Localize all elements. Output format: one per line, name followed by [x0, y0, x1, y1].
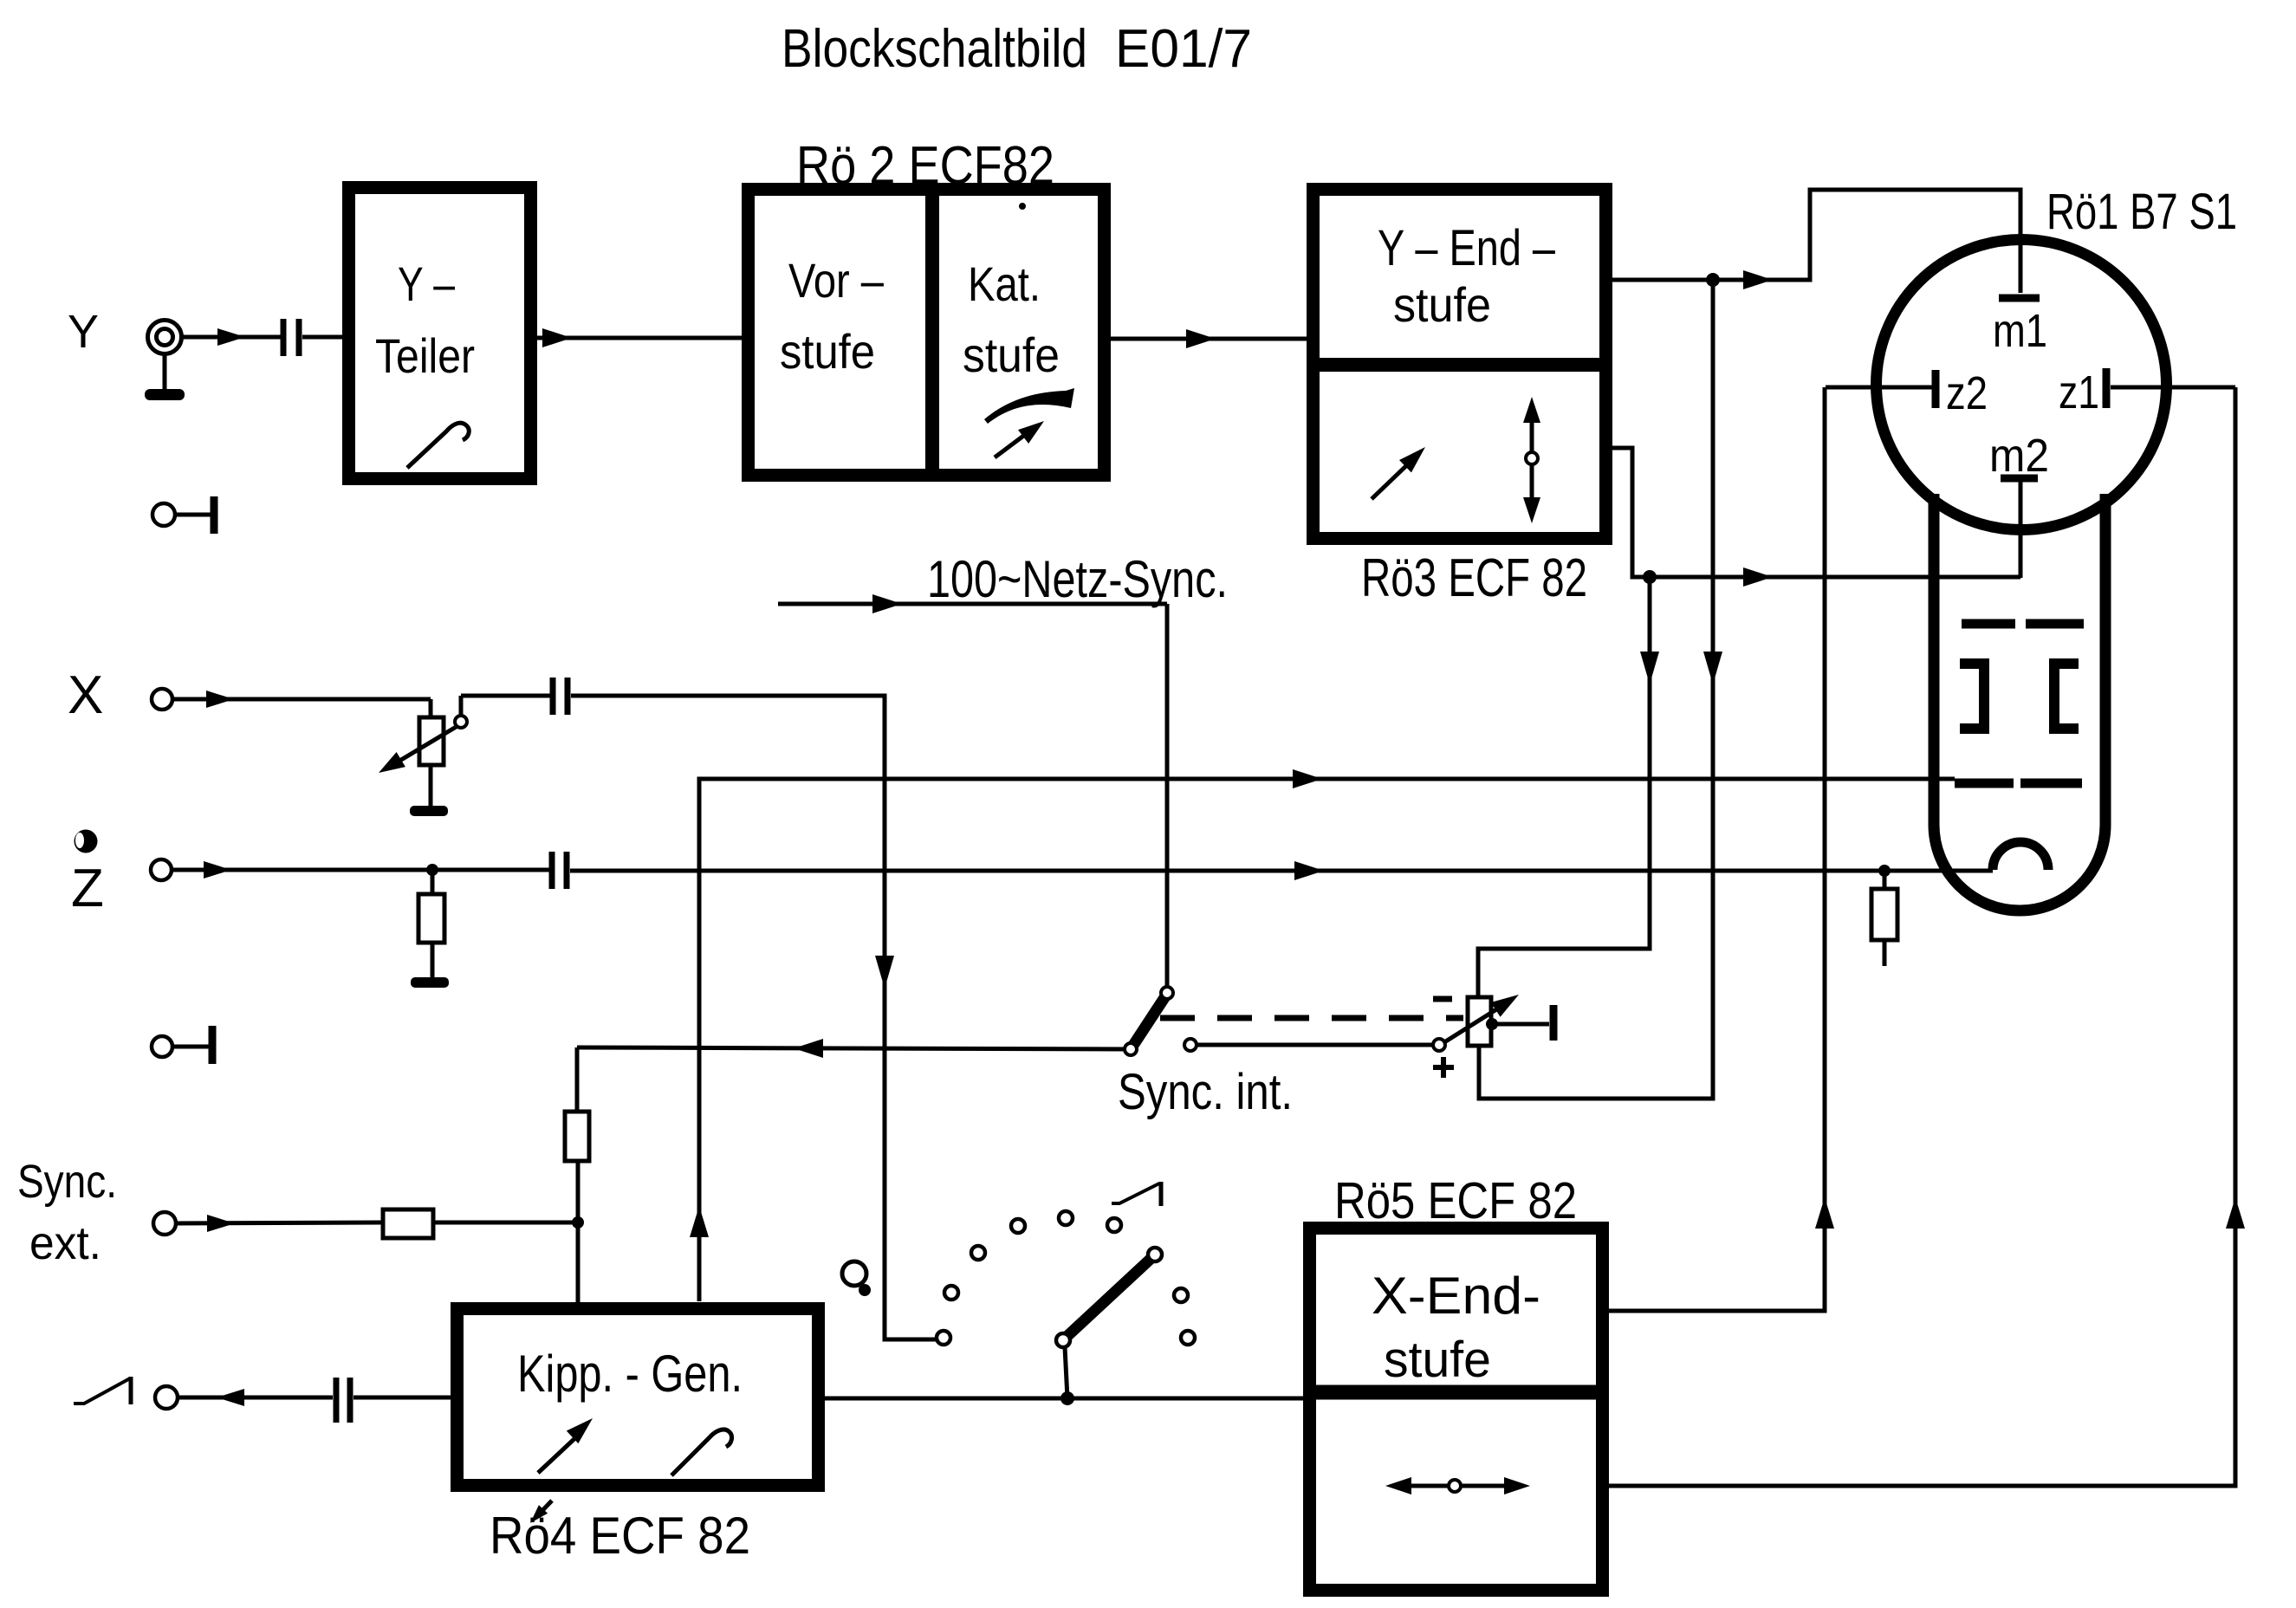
- switch S1 contact 4: [944, 1286, 958, 1300]
- resistor R-sync chain: [565, 1047, 589, 1222]
- svg-text:stufe: stufe: [963, 327, 1060, 382]
- connector J1 coax Y input: [148, 321, 182, 354]
- connector Sync ext: [153, 1212, 176, 1235]
- svg-text:z2: z2: [1946, 367, 1988, 419]
- wire coax stem to ground: [163, 353, 167, 392]
- svg-text:E01/7: E01/7: [1115, 19, 1252, 79]
- wire Z line: [172, 861, 1993, 880]
- svg-text:100~Netz-Sync.: 100~Netz-Sync.: [927, 550, 1228, 608]
- wire X input to pot: [172, 691, 431, 717]
- label Sync int: [1118, 1064, 1293, 1120]
- block Kipp-Gen box: [457, 1309, 819, 1486]
- label minus: [1433, 996, 1452, 1002]
- svg-text:Sync.: Sync.: [17, 1156, 117, 1208]
- switch S1 contact 2: [1011, 1219, 1025, 1233]
- svg-text:X-End-: X-End-: [1372, 1267, 1540, 1325]
- label Kat-stufe: [963, 256, 1060, 382]
- wire Y-Teiler to Roe2: [537, 328, 742, 347]
- connector sawtooth output: [155, 1386, 178, 1409]
- svg-text:Rö3 ECF 82: Rö3 ECF 82: [1361, 548, 1587, 608]
- meter swoosh symbol in Kat.stufe: [984, 388, 1074, 424]
- label z1: [2059, 366, 2099, 418]
- svg-text:Kipp. - Gen.: Kipp. - Gen.: [517, 1345, 743, 1403]
- wire X-End lower output to z1: [1609, 387, 2245, 1486]
- wire Y input to C1: [180, 328, 282, 346]
- wire C3 to Kipp-Gen: [353, 1396, 451, 1400]
- title Blockschaltbild E01/7: [782, 19, 1252, 79]
- electrode z1: [2103, 368, 2111, 408]
- svg-text:ext.: ext.: [29, 1217, 101, 1269]
- wire output to C3: [178, 1389, 333, 1406]
- svg-text:Sync. int.: Sync. int.: [1118, 1064, 1293, 1120]
- wire sync node to Kipp-Gen: [576, 1222, 580, 1302]
- label m2: [1989, 430, 2049, 482]
- ground under Y coax: [145, 389, 185, 400]
- resistor R-cathode: [1871, 871, 1897, 966]
- wire z1 lead: [2111, 386, 2235, 390]
- wire X-End upper output to z2: [1609, 387, 1834, 1311]
- label Vor-stufe: [780, 253, 885, 379]
- svg-text:Y –: Y –: [398, 256, 456, 311]
- sawtooth glyph output: [74, 1377, 131, 1404]
- connector X input: [152, 689, 172, 710]
- switch S1 contact 3: [971, 1246, 985, 1260]
- potentiometer P-X: [379, 716, 467, 773]
- wire X pot wiper to C2: [461, 696, 551, 716]
- label Roe5 ECF 82: [1334, 1172, 1577, 1229]
- wire Sync int line: [577, 1039, 1129, 1058]
- wire Roe2 to Y-End-stufe: [1111, 329, 1307, 348]
- wire Kipp-Gen output: [825, 1397, 1303, 1401]
- deflection plate bracket right: [2054, 664, 2079, 729]
- CRT neck: [1934, 494, 2105, 911]
- wiper dot P-brightness: [1486, 1018, 1498, 1030]
- switch S1 rotor blade: [1056, 1248, 1162, 1347]
- svg-text:Y – End –: Y – End –: [1378, 220, 1556, 276]
- label Sync ext: [17, 1156, 117, 1269]
- sawtooth glyph at S1: [1112, 1182, 1161, 1206]
- label m1: [1993, 305, 2047, 357]
- switch S1 position indicator: [842, 1261, 871, 1296]
- contact circle at pot: [1433, 1039, 1445, 1051]
- arrow symbol in Kipp-Gen: [538, 1418, 593, 1473]
- wire C1 to Y-Teiler: [302, 335, 342, 340]
- switch Sync int blade: [1125, 987, 1173, 1055]
- terminal ground B: [152, 1026, 212, 1064]
- arrow symbol in Kat.stufe: [995, 421, 1044, 457]
- wire Y-End junction to pot plus: [1479, 280, 1722, 1099]
- capacitor C-Z: [552, 852, 567, 889]
- potentiometer symbol in Kipp-Gen: [671, 1430, 732, 1475]
- block Vorstufe Katstufe box: [749, 189, 1105, 476]
- deflection plate bracket left: [1960, 664, 1984, 729]
- svg-text:Blockschaltbild: Blockschaltbild: [782, 19, 1087, 79]
- switch S1 contact 5: [937, 1331, 950, 1345]
- resistor R-Z shunt: [418, 870, 444, 979]
- leader arrow Roe4: [530, 1501, 552, 1523]
- electrode m2: [2001, 475, 2038, 483]
- Y plates dashes in neck: [1962, 619, 2084, 629]
- dot above Kat.stufe: [1019, 203, 1026, 210]
- junction dot sync node: [572, 1216, 584, 1229]
- dashed line Sync int: [1160, 1015, 1463, 1021]
- CRT envelope circle Roe1: [1877, 240, 2167, 530]
- svg-text:m2: m2: [1989, 430, 2049, 482]
- svg-text:X: X: [68, 665, 103, 725]
- switch S1 contact 8: [1181, 1331, 1195, 1345]
- connector Z input: [151, 859, 172, 880]
- junction dot on Y-End output: [1706, 273, 1720, 287]
- capacitor C1: [283, 319, 299, 356]
- wire z2 lead: [1826, 386, 1932, 390]
- node Z label: [71, 859, 104, 918]
- wire Roe3 junction to pot minus: [1478, 577, 1659, 997]
- capacitor C-X: [553, 678, 568, 715]
- svg-text:Kat.: Kat.: [968, 256, 1041, 311]
- svg-text:Rö1 B7 S1: Rö1 B7 S1: [2046, 184, 2237, 240]
- label Roe2 ECF82: [796, 136, 1054, 196]
- wire Kipp to X plates: [690, 769, 1955, 1301]
- switch S1 contact 7: [1174, 1288, 1188, 1302]
- horizontal shift symbol in X-End: [1385, 1477, 1530, 1495]
- junction dot Z shunt: [426, 864, 438, 876]
- potentiometer symbol in Y-Teiler: [407, 423, 469, 468]
- wire Sync ext to R: [176, 1215, 383, 1232]
- label Roe3 ECF82: [1361, 548, 1587, 608]
- label Roe1 B7 S1: [2046, 184, 2237, 240]
- label plus: [1433, 1057, 1454, 1078]
- svg-text:Teiler: Teiler: [375, 328, 475, 383]
- ground under R-Z: [411, 977, 449, 988]
- wire C-X to switch contact: [571, 696, 937, 1339]
- wire Y-End lower output to m2 line: [1612, 448, 2020, 587]
- mark half dot above Z: [75, 830, 98, 853]
- label 100~Netz-Sync: [927, 550, 1228, 608]
- node X label: [68, 665, 103, 725]
- label z2: [1946, 367, 1988, 419]
- potentiometer P-brightness: [1444, 995, 1519, 1046]
- wire Y-End output to m1: [1612, 190, 2020, 293]
- label Roe4 ECF 82: [490, 1507, 750, 1565]
- wire wiper to ground bar: [1492, 1022, 1549, 1027]
- junction dot m2 line: [1643, 570, 1657, 584]
- contact Sync int open: [1184, 1039, 1433, 1051]
- X plates dashes in neck: [1955, 779, 2082, 788]
- switch S1 contact 1: [1059, 1211, 1073, 1225]
- vertical shift symbol in Roe3 cell: [1523, 397, 1540, 523]
- svg-text:Y: Y: [68, 306, 99, 358]
- gain arrow symbol in Roe3 cell: [1372, 447, 1425, 499]
- switch S1 contact 6: [1107, 1218, 1121, 1232]
- wire Netz-Sync arrow line: [778, 594, 1167, 989]
- label Y-Teiler: [375, 256, 475, 383]
- svg-text:Rö5 ECF 82: Rö5 ECF 82: [1334, 1172, 1577, 1229]
- block Y-Teiler box: [349, 188, 531, 479]
- svg-text:stufe: stufe: [780, 324, 875, 379]
- electrode m1: [1999, 295, 2040, 302]
- electrode z2: [1932, 370, 1940, 408]
- terminal bar P-brightness: [1550, 1005, 1558, 1041]
- junction dot cathode node: [1878, 865, 1891, 877]
- cathode heater arc: [1993, 842, 2048, 870]
- block Y-End-stufe box: [1313, 190, 1606, 539]
- svg-text:Rö4 ECF 82: Rö4 ECF 82: [490, 1507, 750, 1565]
- terminal ground A: [152, 496, 214, 534]
- svg-text:stufe: stufe: [1384, 1332, 1491, 1388]
- svg-text:stufe: stufe: [1393, 277, 1491, 332]
- node Y label: [68, 306, 99, 358]
- svg-text:Vor –: Vor –: [788, 253, 885, 308]
- svg-text:z1: z1: [2059, 366, 2099, 418]
- block X-End-stufe box: [1310, 1229, 1603, 1591]
- capacitor C-output: [336, 1378, 350, 1423]
- junction dot rotor node: [1060, 1391, 1074, 1405]
- wire rotor to Kipp output: [1065, 1347, 1067, 1398]
- ground under P-X: [410, 765, 448, 816]
- label Kipp-Gen: [517, 1345, 743, 1403]
- svg-text:m1: m1: [1993, 305, 2047, 357]
- wire m2 lead down: [2019, 482, 2023, 578]
- resistor R-sync series: [383, 1209, 578, 1238]
- label Y-End-stufe: [1378, 220, 1556, 332]
- svg-text:Z: Z: [71, 859, 104, 918]
- label X-End-stufe: [1372, 1267, 1540, 1388]
